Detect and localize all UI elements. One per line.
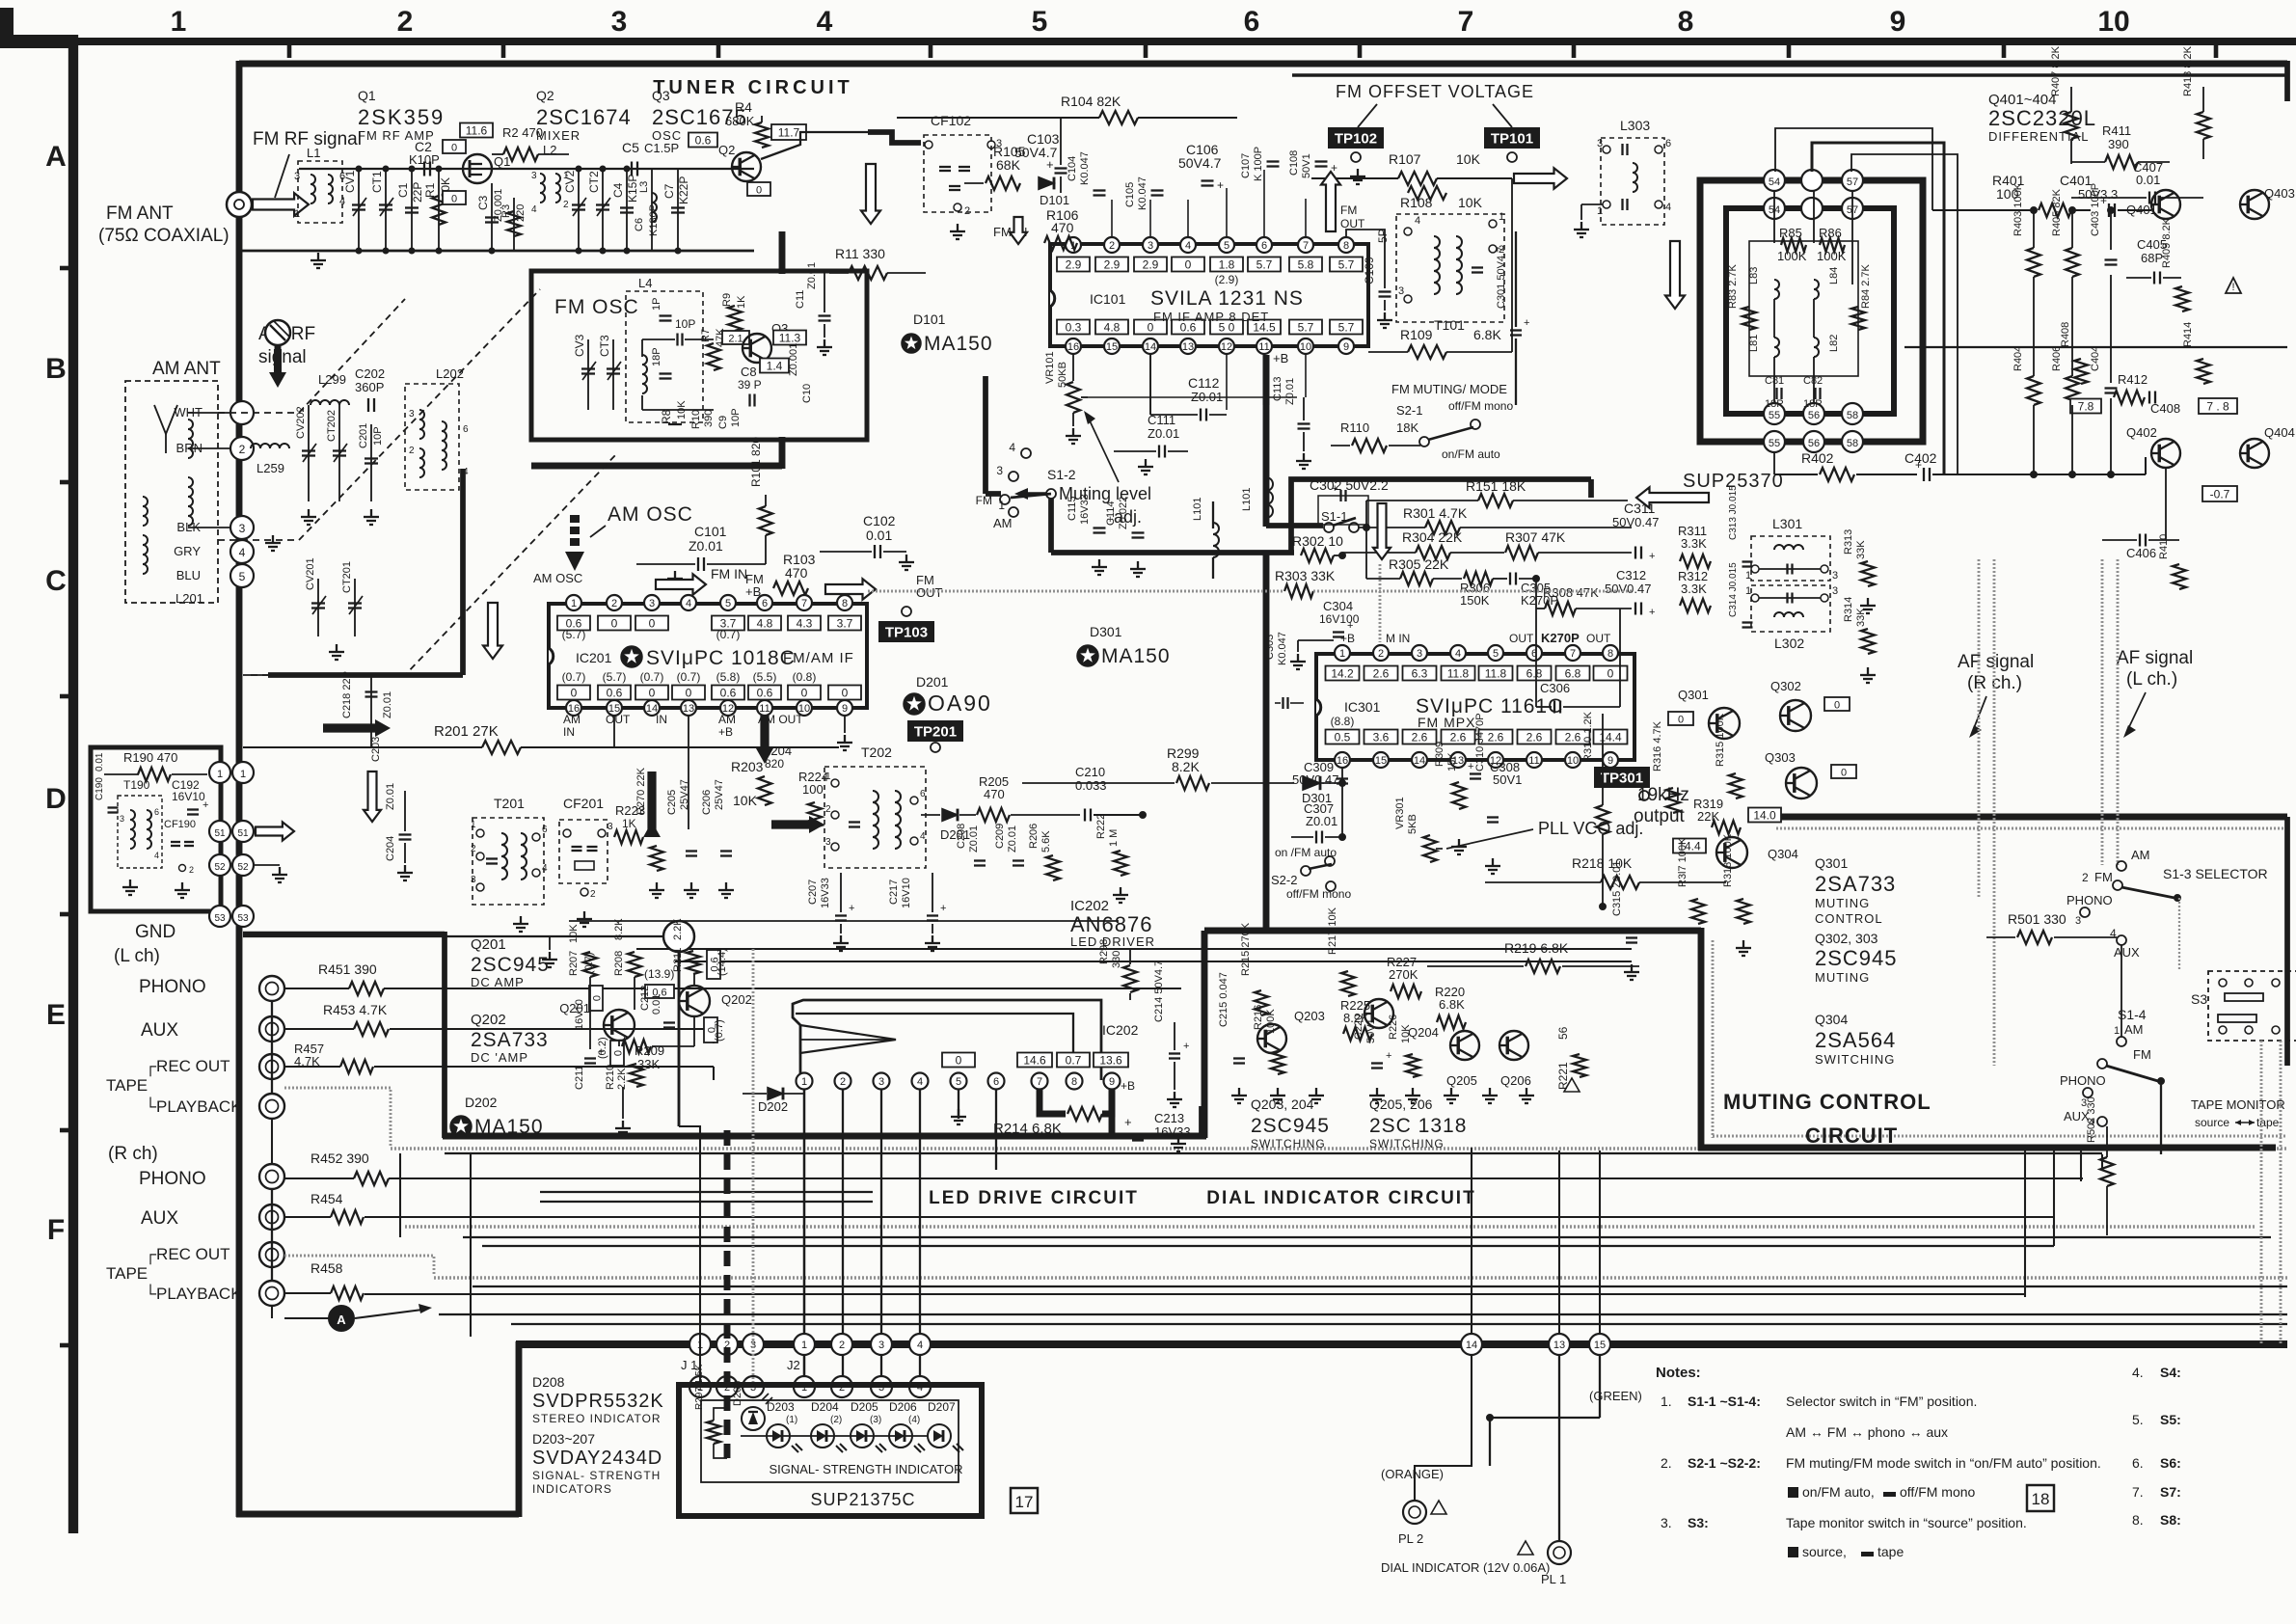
svg-text:CV3: CV3 [573,334,586,357]
svg-text:FM OFFSET VOLTAGE: FM OFFSET VOLTAGE [1336,82,1534,101]
svg-text:C1: C1 [396,182,410,198]
svg-text:3: 3 [1832,585,1838,597]
main bus connector 3 [743,1334,764,1355]
svg-text:3: 3 [120,814,124,824]
svg-text:3: 3 [878,1340,884,1351]
svg-text:TAPE MONITOR: TAPE MONITOR [2191,1097,2285,1112]
svg-text:VR301: VR301 [1394,797,1406,829]
thick segment pin7 R214 [1040,1090,1066,1114]
svg-text:T190: T190 [123,778,150,792]
svg-text:R222: R222 [1095,814,1107,839]
svg-text:MIXER: MIXER [536,128,581,143]
svg-text:source: source [2195,1116,2229,1129]
svg-text:360P: 360P [355,380,384,394]
junction C210 out [1140,812,1147,819]
svg-text:C7: C7 [662,183,676,199]
svg-text:TP101: TP101 [1491,131,1533,148]
svg-text:C206: C206 [701,790,713,815]
svg-text:R452 390: R452 390 [311,1150,369,1166]
left ruler bar [68,35,78,1533]
IC301 value box 3.6 [1364,730,1398,744]
svg-text:3: 3 [611,6,628,38]
wires Q402 emitter [2165,469,2167,540]
svg-text:50V0.47: 50V0.47 [1612,515,1659,529]
svg-text:8: 8 [842,598,848,609]
IC101 value box 5.7 [1248,257,1281,272]
svg-text:S3: S3 [2191,991,2207,1007]
svg-text:13: 13 [683,703,694,715]
svg-text:A: A [337,1313,346,1327]
svg-text:14.6: 14.6 [1023,1054,1046,1068]
svg-text:2: 2 [964,205,970,217]
IC301 value box 11.8 [1442,666,1475,681]
svg-text:390: 390 [703,410,715,427]
IC202 comparator triangle [800,1025,896,1053]
IC202 pin 7 [1032,1073,1048,1090]
IC201 value box 4.3 [788,616,821,631]
svg-text:0: 0 [756,185,762,197]
svg-text:TP201: TP201 [914,724,957,741]
svg-text:D205: D205 [851,1400,878,1414]
wire [995,1086,997,1170]
svg-text:2.2K: 2.2K [616,1068,628,1090]
svg-text:50V0.47: 50V0.47 [1292,772,1338,787]
svg-text:INDICATORS: INDICATORS [532,1482,612,1496]
svg-text:5: 5 [1032,6,1048,38]
thick wire x1246 up [1199,1106,1204,1139]
svg-text:Q302: Q302 [1770,679,1801,693]
capacitor C4 K15P [626,169,628,251]
svg-text:R297 1.5K: R297 1.5K [694,1364,705,1410]
svg-text:CF190: CF190 [164,819,196,830]
svg-text:(14.4): (14.4) [716,948,728,976]
svg-text:4: 4 [339,196,345,207]
svg-text:0: 0 [1678,715,1684,726]
svg-text:FM muting/FM mode switch in “o: FM muting/FM mode switch in “on/FM auto”… [1786,1455,2101,1471]
capacitor C3 Z0.001 [491,183,493,251]
IC U201 SVI uPC1018C body [549,604,867,708]
svg-text:R301 4.7K: R301 4.7K [1403,505,1468,521]
svg-text:6: 6 [463,424,469,435]
svg-text:L259: L259 [257,461,284,475]
AM tuner dashed boundary [218,299,405,413]
thick GND-rail riser [442,932,447,1138]
inner thin box [701,1400,959,1482]
svg-text:R104 82K: R104 82K [1061,94,1121,109]
svg-text:22P: 22P [411,182,424,203]
svg-text:R308 47K: R308 47K [1543,585,1599,600]
svg-text:FM: FM [2133,1047,2151,1062]
svg-text:K15P: K15P [626,175,639,203]
IC101 pin 13 [1180,338,1196,354]
svg-text:on/FM auto,: on/FM auto, [1802,1484,1875,1500]
leader to AM OSC [590,526,606,537]
boxed value 7.8 right [2199,398,2237,414]
IC101 value box 0.3 [1057,320,1090,335]
svg-text:R302 10: R302 10 [1292,533,1343,549]
FM ANT coax connector [227,192,252,217]
svg-text:Q206: Q206 [1500,1073,1531,1088]
svg-text:CONTROL: CONTROL [1815,911,1883,926]
svg-text:1: 1 [240,769,246,780]
svg-text:TP103: TP103 [885,625,928,641]
hollow down arrow above R305 [1373,503,1391,559]
svg-text:K180P: K180P [648,204,660,236]
svg-text:4: 4 [917,1076,923,1088]
svg-text:10K: 10K [1458,195,1483,210]
svg-text:53: 53 [237,913,249,924]
svg-text:(2): (2) [830,1415,842,1425]
junction [1487,1415,1494,1421]
svg-text:(8.8): (8.8) [1331,715,1355,728]
AF signal leaders [1972,696,1986,733]
svg-text:C306: C306 [1540,681,1570,695]
transistor Q303 [1786,768,1817,798]
svg-text:A: A [45,141,67,173]
svg-text:D101: D101 [1040,193,1069,207]
svg-text:AM: AM [718,713,736,726]
svg-text:SWITCHING: SWITCHING [1815,1052,1895,1067]
svg-text:R8: R8 [660,409,673,424]
svg-text:2.6: 2.6 [1412,731,1428,744]
svg-text:5.: 5. [2132,1412,2144,1427]
svg-text:Q1: Q1 [358,88,376,103]
svg-text:AM: AM [993,516,1013,530]
svg-text:K0.047: K0.047 [1079,151,1091,185]
main bus connector 15 [1589,1334,1610,1355]
svg-text:C210: C210 [1075,765,1105,779]
wire J1 pin3 feed hatched [752,949,755,1382]
svg-text:DIFFERENTIAL: DIFFERENTIAL [1988,129,2089,144]
svg-text:2.1: 2.1 [728,334,743,345]
transistor Q204 [1364,999,1393,1028]
svg-text:11.7: 11.7 [778,126,800,140]
svg-text:C108: C108 [1288,150,1300,176]
svg-text:S2-2: S2-2 [1271,873,1297,887]
SUP25370 inner frame [1726,208,1894,414]
svg-text:4: 4 [917,1340,923,1351]
svg-text:16V100: 16V100 [1319,612,1360,626]
svg-text:8.2K: 8.2K [1172,759,1200,774]
svg-text:Z0.01: Z0.01 [806,262,818,289]
svg-text:C314 J0.015: C314 J0.015 [1728,562,1739,617]
boxed 0 (0.7) under Q202 rotated [704,1017,718,1042]
svg-text:B: B [45,353,67,385]
top ruler line [69,38,2296,45]
svg-text:2SC1674: 2SC1674 [536,105,632,129]
input jack [259,976,284,1001]
wire C218 C203 stems [370,675,372,747]
svg-text:Z0.001: Z0.001 [788,343,799,376]
svg-text:C302 50V2.2: C302 50V2.2 [1310,477,1389,493]
boxed value 11.7 [771,124,806,140]
svg-text:L301: L301 [1772,516,1802,531]
svg-text:9: 9 [1109,1076,1115,1088]
transistor Q301 [1709,708,1740,739]
svg-text:10: 10 [2097,6,2129,38]
svg-text:0.01: 0.01 [866,528,892,543]
svg-text:0.033: 0.033 [1075,778,1107,793]
thick corner x1339 [1291,479,1591,553]
svg-text:R210: R210 [605,1065,616,1090]
IC201 pin 10 [797,700,812,716]
switch S3 dashed box [2208,971,2296,1041]
boxed value 0 [443,191,466,204]
svg-text:AM ↔ FM ↔ phono ↔ aux: AM ↔ FM ↔ phono ↔ aux [1786,1424,1948,1440]
svg-text:Q302, 303: Q302, 303 [1815,931,1878,946]
svg-text:C403 100P: C403 100P [2090,183,2101,236]
switch arrow at A [355,1310,422,1318]
svg-text:Tape monitor switch in “source: Tape monitor switch in “source” position… [1786,1515,2027,1530]
IC201 value box 0.6 [712,686,744,700]
svg-text:MA150: MA150 [1101,645,1171,667]
wire [540,1191,873,1193]
wire base feed y218 [1932,209,2035,211]
ground at front-end [317,253,319,260]
IC201 pin 13 [681,700,696,716]
svg-text:T101: T101 [1434,317,1465,333]
svg-text:9: 9 [1343,341,1349,353]
boxed value 0 [443,140,466,153]
IC301 value box 0.5 [1326,730,1360,744]
IC201 value box 4.8 [748,616,781,631]
thick wire y700 [268,672,463,678]
svg-text:6.: 6. [2132,1455,2144,1471]
svg-text:R208: R208 [613,951,625,976]
IC202 value box 0 [942,1053,975,1068]
svg-text:Q204: Q204 [1408,1025,1439,1040]
J1 row2 connectors [689,1376,711,1397]
svg-text:0: 0 [1834,700,1840,712]
svg-text:3: 3 [1832,570,1838,582]
svg-text:IC101: IC101 [1090,291,1126,307]
svg-text:AM OSC: AM OSC [533,571,582,585]
wire [540,1201,873,1203]
thick drop from FM OSC box [460,469,466,675]
hollow down arrow below L303 [1665,241,1685,309]
IC201 value box 0 [598,616,631,631]
dashed link to AM OSC [251,453,617,675]
svg-text:25V47: 25V47 [679,779,690,810]
wires Q201 Q202 [589,977,591,1049]
IC201 pin 6 [757,595,772,610]
svg-text:Z0.01: Z0.01 [1007,826,1018,853]
svg-text:Q404: Q404 [2264,425,2295,440]
svg-text:C304: C304 [1323,599,1353,613]
svg-text:R303 33K: R303 33K [1275,568,1336,583]
cap CV201 [317,579,319,636]
svg-text:IC202: IC202 [1102,1022,1139,1038]
svg-text:R408: R408 [2060,322,2071,347]
svg-text:10K: 10K [1456,151,1481,167]
svg-text:1: 1 [1499,211,1504,223]
svg-text:0.3: 0.3 [1066,321,1082,335]
svg-text:2.6: 2.6 [1373,667,1390,681]
IC101 value box 5.7 [1330,257,1363,272]
svg-text:39 P: 39 P [738,378,762,392]
svg-text:18: 18 [2032,1490,2050,1508]
warning triangle PL2 [1431,1501,1446,1514]
svg-text:R84 2.7K: R84 2.7K [1860,263,1872,309]
vertical riser x415 [399,1153,401,1237]
svg-text:L303: L303 [1620,118,1650,133]
GND connector circle [663,921,694,952]
antenna coil L1 [298,161,342,223]
svg-text:L2: L2 [543,143,556,157]
svg-text:10K: 10K [568,924,580,943]
svg-text:R304 22K: R304 22K [1402,529,1463,545]
connector 58 inner bottom [1842,403,1863,424]
svg-text:C101: C101 [694,524,727,539]
svg-text:C107: C107 [1240,153,1252,178]
svg-text:C114: C114 [1105,501,1117,526]
ground C101 [674,571,676,579]
wire long y997 [675,961,1632,962]
svg-text:PHONO: PHONO [2060,1073,2106,1088]
svg-text:15: 15 [1106,341,1118,353]
hollow up arrow FM OUT [1321,172,1340,231]
diode D202 symbol [768,1088,783,1100]
IC202 pin 6 [988,1073,1005,1090]
svg-text:C109: C109 [1363,257,1376,284]
IC301 pin 4 [1450,645,1466,661]
svg-text:FM RF AMP: FM RF AMP [358,128,435,143]
IC202 pin 8 [1067,1073,1083,1090]
svg-text:8.: 8. [2132,1512,2144,1528]
capacitor 10P [676,334,678,346]
svg-text:6.8K: 6.8K [1473,327,1501,342]
thick +B drop at pin11 [1263,355,1270,405]
svg-text:10: 10 [1567,755,1579,767]
svg-text:Q203: Q203 [1294,1009,1325,1023]
thick bus y965 [1204,928,1701,934]
svg-text:(0.7): (0.7) [677,670,701,684]
svg-text:0.6: 0.6 [720,687,737,700]
svg-text:2: 2 [563,200,569,210]
boxed value 0 q303 [1831,765,1856,778]
svg-text:E: E [46,999,66,1031]
svg-text:2SC945: 2SC945 [1251,1115,1330,1137]
svg-text:SWITCHING: SWITCHING [1251,1137,1326,1150]
oscillator injection L3 [651,169,653,251]
svg-text:5.7: 5.7 [1338,321,1355,335]
svg-text:+: + [1524,317,1529,329]
svg-text:D203~207: D203~207 [532,1431,595,1447]
svg-text:FM: FM [1340,203,1357,217]
svg-text:R3: R3 [500,204,512,218]
svg-text:0: 0 [1607,667,1614,681]
FM IN arrow [656,574,706,594]
main bus connector j2 4 [909,1334,931,1355]
input jack [259,1204,284,1230]
hollow down arrow below CF102 [861,164,880,224]
S1-3 lever [2121,887,2174,898]
boxed 0.6 (14.4) rotated [707,950,721,979]
svg-text:4: 4 [1415,215,1420,227]
svg-text:SUP21375C: SUP21375C [810,1490,915,1509]
front-end top rail [299,168,754,170]
svg-text:(0.7): (0.7) [714,1019,725,1042]
FET Q1 2SK359 [463,154,492,183]
svg-text:R203: R203 [731,759,764,774]
wire loop from SUP blank to R402 net [1812,143,1944,474]
wire long y984 [636,948,1632,950]
svg-text:R414: R414 [2182,322,2194,347]
IC301 value box 0 [1594,666,1628,681]
svg-text:MUTING: MUTING [1815,896,1870,910]
IC301 value box 6.8 [1556,666,1590,681]
schematic outer border left [236,61,243,1517]
svg-text:C401: C401 [2060,173,2093,188]
svg-text:12: 12 [1221,341,1232,353]
svg-text:FM IN: FM IN [711,566,747,582]
svg-text:16: 16 [1067,341,1079,353]
IC301 pin 9 [1603,752,1618,768]
IC301 pin 2 [1373,645,1389,661]
svg-text:(0.7): (0.7) [562,670,586,684]
svg-text:Q2: Q2 [718,143,735,157]
svg-text:(L ch): (L ch) [114,946,160,966]
svg-text:OUT: OUT [606,713,631,726]
muting box bottom thick [1698,1145,2276,1151]
svg-text:3: 3 [1417,648,1422,660]
svg-text:6: 6 [1244,6,1260,38]
IC201 pin 16 [566,700,581,716]
svg-text:Q403: Q403 [2264,186,2295,201]
svg-text:1.8: 1.8 [1219,258,1235,272]
svg-text:55: 55 [1769,410,1780,421]
IC101 value box 1.8 [1210,257,1243,272]
svg-text:2.6: 2.6 [1488,731,1504,744]
IC101 value box 5.7 [1330,320,1363,335]
ground C108 [1357,169,1359,176]
svg-text:-0.7: -0.7 [2210,488,2230,501]
AM ANT dashed box [125,381,218,603]
junction dots front rails [356,248,362,254]
IC201 value box 0 [557,686,590,700]
svg-text:(1): (1) [786,1415,797,1425]
main bus connector 14 [1461,1334,1482,1355]
svg-text:3: 3 [608,822,613,832]
svg-text:K0.047: K0.047 [1277,632,1288,665]
svg-text:IC201: IC201 [576,650,612,665]
svg-text:3: 3 [878,1076,884,1088]
svg-text:FM: FM [2094,870,2113,884]
schematic outer border top [239,61,2287,68]
IC201 value box 0 [635,616,668,631]
svg-text:R412: R412 [2118,372,2147,387]
svg-text:5.8: 5.8 [1298,258,1314,272]
svg-text:R407 8.2K: R407 8.2K [2050,45,2062,96]
svg-text:5: 5 [1224,240,1229,252]
left ruler tick [60,1343,73,1348]
svg-text:14.0: 14.0 [1753,809,1776,823]
svg-text:2SC945: 2SC945 [471,954,550,976]
svg-text:+: + [2100,194,2107,207]
svg-text:4: 4 [817,6,833,38]
svg-text:R307 47K: R307 47K [1505,529,1566,545]
svg-text:J2: J2 [787,1358,800,1372]
svg-text:OUT: OUT [1340,217,1365,230]
svg-text:0.01: 0.01 [95,752,105,771]
IC101 value box 2.9 [1095,257,1128,272]
AM antenna connector [265,320,290,345]
connector 5 BLU [230,564,254,587]
main bus connector 1 [689,1334,711,1355]
tuning cap CV3 [587,339,589,410]
svg-text:50V0.47: 50V0.47 [1605,582,1651,596]
svg-text:R214 6.8K: R214 6.8K [993,1121,1062,1137]
